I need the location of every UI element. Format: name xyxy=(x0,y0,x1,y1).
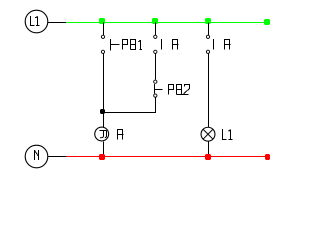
wire N stub xyxy=(48,156,66,158)
wire L1 rail (hot, green) xyxy=(66,22,268,24)
source terminal L1 xyxy=(25,10,48,33)
wire branch2 vertical riser xyxy=(155,97,157,112)
wire drop1 lower to coil xyxy=(103,113,105,128)
node junction drop1-branch2 xyxy=(100,109,105,114)
pushbutton PB2 (NC) xyxy=(154,80,190,97)
wire N rail (neutral, red) xyxy=(66,156,268,158)
node junction rail-lamp xyxy=(205,154,211,160)
contact R lamp branch (NO) xyxy=(206,35,230,53)
lamp L1 xyxy=(201,127,232,141)
neutral terminal N xyxy=(25,145,48,168)
node junction rail-drop1 xyxy=(99,18,105,24)
node junction rail-coil xyxy=(99,154,105,160)
contact R seal-in (NO) xyxy=(154,35,179,53)
wire drop2 between contact R and PB2 xyxy=(155,54,157,80)
wire below coil xyxy=(103,141,105,156)
pushbutton PB1 (NO) xyxy=(101,35,141,53)
wire drop1 upper xyxy=(103,23,105,36)
wire drop3 upper xyxy=(208,23,210,36)
wire drop3 middle xyxy=(208,54,210,128)
node neutral rail end xyxy=(265,154,270,160)
wire drop2 upper xyxy=(155,23,157,36)
wire drop1 middle xyxy=(103,54,105,113)
wire branch2 horizontal xyxy=(103,112,156,114)
relay coil R xyxy=(95,127,124,141)
wire below lamp xyxy=(208,142,210,157)
node hot rail end xyxy=(264,19,270,25)
node junction rail-drop3 xyxy=(205,18,211,24)
wire L1 stub xyxy=(48,22,66,24)
node junction rail-drop2 xyxy=(152,18,158,24)
